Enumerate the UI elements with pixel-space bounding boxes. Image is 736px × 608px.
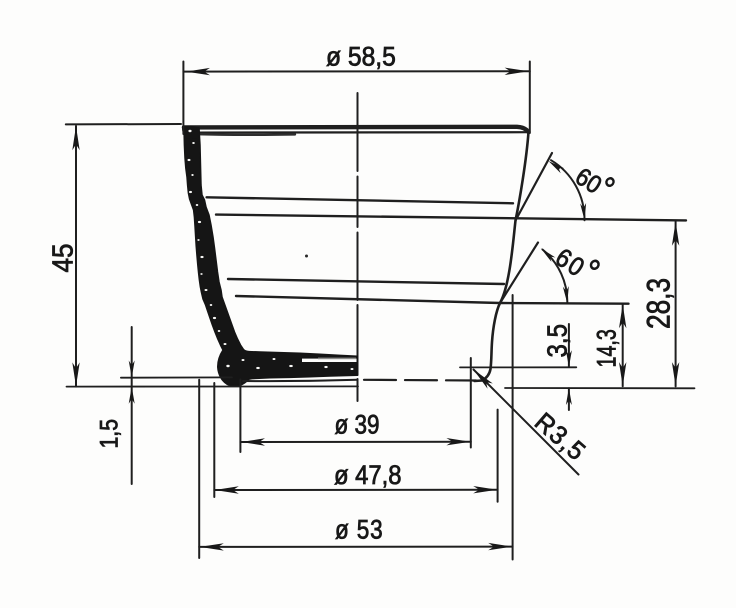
white sliver under band top line near centerline: [302, 359, 357, 362]
arrows dim 58.5: [186, 68, 210, 75]
dim 47.8: left extension line: [213, 383, 215, 497]
arrows dim 14.3: [619, 304, 626, 328]
svg-text:R3,5: R3,5: [529, 407, 591, 467]
dim 53 line: [199, 546, 512, 548]
inside-bottom reference line right: [460, 366, 576, 368]
arrows dim 1.5 (outside): [129, 361, 135, 378]
rim top thick line: [184, 127, 529, 132]
dim 1.5: dimension line: [131, 327, 133, 484]
hidden dashed bottom line right of centerline: [364, 379, 476, 382]
interior step line 3: [228, 279, 504, 284]
dim 3.5: upper stem: [568, 324, 570, 367]
left wall + bottom section (filled cut): [184, 128, 358, 386]
arrows dim 45: [72, 126, 79, 150]
60 deg #1: arc: [551, 160, 585, 220]
interior step line 1: [207, 197, 513, 203]
svg-text:ø 39: ø 39: [335, 411, 380, 440]
bottom datum line right: [505, 387, 695, 389]
dim 45: dimension line: [75, 126, 77, 387]
svg-text:14,3: 14,3: [593, 329, 623, 367]
arrow 60deg #2 arc bottom: [563, 286, 570, 303]
svg-text:45: 45: [46, 243, 79, 272]
bottom datum line left: [67, 385, 359, 387]
svg-text:ø 58,5: ø 58,5: [326, 43, 396, 72]
dim 58.5: dimension line: [183, 70, 529, 72]
dim 58.5: right extension line: [529, 62, 531, 134]
svg-text:60°: 60°: [569, 155, 621, 207]
arrows dim 3.5 (outside): [566, 350, 572, 367]
svg-text:ø 47,8: ø 47,8: [334, 461, 402, 490]
dim 47.8 line: [214, 489, 497, 491]
arrow 60deg #2 arc top: [539, 246, 556, 262]
svg-text:3,5: 3,5: [541, 324, 573, 357]
dim 39: right extension line: [470, 358, 472, 448]
rim inner rough line left: [198, 133, 295, 136]
arrow 60deg #1 arc bottom: [580, 203, 587, 220]
1.5 upper reference line: [121, 376, 232, 378]
60 deg #2: slant line: [500, 243, 538, 304]
arrow 60deg #1 arc top: [547, 159, 564, 174]
arrow R3.5 leader: [471, 367, 493, 389]
svg-text:60°: 60°: [549, 236, 608, 294]
dim 28.3 line: [675, 222, 677, 387]
svg-text:1,5: 1,5: [95, 419, 123, 449]
60 deg #1: slant line: [516, 153, 553, 221]
arrows dim 53: [200, 543, 224, 550]
dim 39 line: [240, 441, 470, 443]
svg-text:28,3: 28,3: [642, 278, 677, 329]
dim 3.5: lower stem: [568, 388, 570, 410]
rim inner thin line: [196, 131, 529, 134]
60 deg #2: arc: [543, 250, 568, 304]
interior step line 4 (long, reaches 14.3 ext): [236, 296, 629, 304]
stray dot inside cup: [305, 255, 308, 258]
wall top junction blob: [182, 126, 200, 139]
wall texture specks: [188, 130, 191, 132]
dim 39: left extension line: [239, 380, 241, 453]
dim 53: right extension line: [512, 295, 514, 560]
dim 14.3 line: [622, 304, 624, 386]
svg-text:ø 53: ø 53: [335, 516, 383, 545]
dim 58.5: left extension line: [182, 62, 184, 135]
dim 45: top extension line: [66, 123, 181, 125]
right wall thin outline: [475, 132, 529, 381]
arrows dim 39: [241, 438, 265, 445]
R3.5 leader line: [474, 370, 579, 475]
arrows dim 47.8: [215, 486, 239, 493]
outer bottom line left of centerline: [243, 380, 358, 381]
dim 53: left extension line: [198, 380, 200, 558]
centerline: [357, 93, 359, 401]
arrows dim 28.3: [672, 222, 679, 246]
dim 47.8: right extension line: [497, 410, 499, 502]
interior step line 2 (long, reaches 28.3 ext): [216, 215, 686, 221]
